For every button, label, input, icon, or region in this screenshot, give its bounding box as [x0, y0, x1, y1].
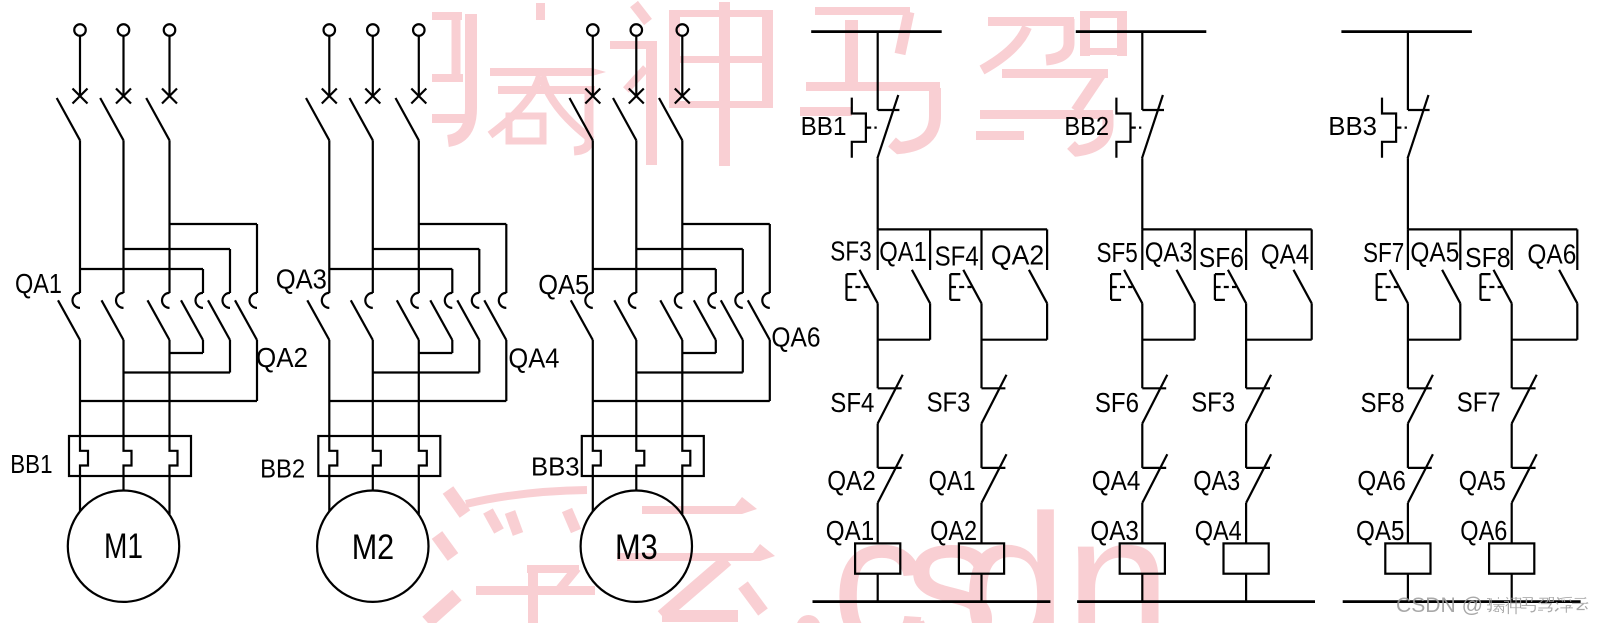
wire L3 breaker to contactor, branch 1 — [168, 140, 170, 293]
circuit breaker blade L3 branch 1 — [146, 98, 169, 140]
contactor coil QA2, branch 1 — [959, 543, 1004, 573]
NC button contact SF4, branch 1 — [878, 387, 902, 389]
seal-in wire QA5 contact bottom, branch 3 — [1408, 303, 1460, 339]
wire QA4 pole3 bottom to L1, branch 2 — [329, 340, 506, 401]
svg-text:QA6: QA6 — [771, 321, 820, 352]
NC interlock contact QA2, branch 1 — [878, 467, 902, 469]
svg-text:BB3: BB3 — [531, 452, 580, 482]
supply terminal L1 branch 3 — [587, 24, 599, 36]
circuit breaker blade L2 branch 1 — [100, 98, 123, 140]
wire QA5 to coil QA6, branch 3 — [1511, 503, 1513, 544]
wire coil QA2 to bus N, branch 1 — [980, 574, 982, 602]
wire stub to QA5 contact top, branch 3 — [1459, 229, 1461, 270]
node bus for parallel start branches, branch 1 — [878, 228, 1047, 230]
supply terminal L1 branch 2 — [324, 24, 336, 36]
wire QA4 pole1 bottom to L3, branch 2 — [419, 340, 453, 353]
svg-text:QA4: QA4 — [508, 343, 559, 374]
wire overload to motor M3 lead 3 — [681, 476, 683, 514]
svg-text:BB2: BB2 — [260, 454, 305, 484]
wire L3 terminal to breaker, branch 3 — [681, 36, 683, 96]
wire L2 to QA2 pole2 top, branch 1 — [124, 249, 231, 293]
NC interlock contact QA1, branch 1 — [982, 467, 1006, 469]
circuit breaker blade L1 branch 1 — [57, 98, 80, 140]
wire BB1 to branch node, branch 1 — [877, 158, 879, 229]
wire L1 to QA6 pole1 top, branch 3 — [593, 269, 716, 293]
contactor QA5 main contact pole 2, branch 3 — [629, 293, 636, 308]
circuit breaker contact cross L3 branch 3 — [675, 89, 690, 104]
watermark (decorative) — [427, 2, 1171, 623]
wire coil QA3 to bus N, branch 2 — [1141, 574, 1143, 602]
NO contact QA6, branch 3 — [1559, 270, 1577, 304]
wire L1 terminal to breaker, branch 2 — [328, 36, 330, 96]
contactor QA1 main contact pole 2, branch 1 — [116, 293, 124, 308]
wire stub to QA1 contact top, branch 1 — [929, 229, 931, 270]
BB1 trip mechanism symbol — [852, 98, 866, 158]
wire SF8 to QA6, branch 3 — [1407, 424, 1409, 468]
circuit breaker blade L1 branch 2 — [306, 98, 329, 140]
NC button contact SF6, branch 2 — [1142, 387, 1166, 389]
svg-text:SF6: SF6 — [1095, 387, 1139, 418]
svg-text:QA4: QA4 — [1092, 465, 1141, 496]
contactor QA6 main contact pole 1, branch 3 — [708, 293, 715, 308]
contactor QA4 main contact pole 3, branch 2 — [499, 293, 506, 308]
BB3 trip mechanism symbol — [1382, 98, 1396, 158]
overload heater element BB1 pole 1 — [80, 436, 88, 476]
control supply bus L, branch 1 — [811, 30, 942, 33]
wire SF6 to interlock chain, branch 2 — [1245, 303, 1247, 388]
wire stub to SF6 contact top, branch 2 — [1245, 229, 1247, 270]
contactor coil QA3, branch 2 — [1120, 543, 1165, 573]
supply terminal L1 branch 1 — [74, 24, 86, 36]
circuit breaker contact cross L2 branch 1 — [116, 89, 131, 104]
wire overload to motor M1 lead 2 — [122, 476, 124, 491]
overload heater element BB3 pole 2 — [636, 436, 644, 476]
supply terminal L2 branch 1 — [118, 24, 130, 36]
svg-text:QA4: QA4 — [1195, 515, 1242, 546]
contactor coil QA1, branch 1 — [855, 543, 900, 573]
wire L3 terminal to breaker, branch 1 — [168, 36, 170, 96]
wire QA2 pole3 bottom to L1, branch 1 — [80, 340, 257, 401]
wire L3 terminal to breaker, branch 2 — [418, 36, 420, 96]
NC button contact SF3, branch 2 — [1246, 387, 1270, 389]
wire QA3 to coil QA4, branch 2 — [1245, 503, 1247, 544]
wire overload to motor M2 lead 3 — [418, 476, 420, 514]
contactor QA4 main contact pole 2, branch 2 — [472, 293, 479, 308]
NC interlock contact QA5, branch 3 — [1512, 467, 1536, 469]
control return bus N, branch 2 — [1077, 600, 1315, 603]
seal-in wire QA4 contact bottom, branch 2 — [1246, 303, 1312, 339]
NC button contact SF8, branch 3 — [1408, 387, 1432, 389]
wire coil QA6 to bus N, branch 3 — [1511, 574, 1513, 602]
svg-text:QA4: QA4 — [1261, 239, 1309, 270]
node bus for parallel start branches, branch 2 — [1142, 228, 1311, 230]
pushbutton actuator of SF4, branch 1 — [950, 274, 960, 300]
NC interlock contact QA4, branch 2 — [1142, 467, 1166, 469]
wire L3 breaker to contactor, branch 2 — [418, 140, 420, 293]
overload heater element BB2 pole 3 — [419, 436, 427, 476]
wire QA4 pole2 bottom to L2, branch 2 — [373, 340, 480, 373]
motor M1 — [68, 491, 179, 602]
svg-text:QA5: QA5 — [1356, 515, 1404, 546]
circuit breaker contact cross L1 branch 3 — [585, 89, 600, 104]
svg-text:SF4: SF4 — [830, 387, 874, 418]
NC interlock contact QA6, branch 3 — [1408, 467, 1432, 469]
contactor QA3 main contact pole 1, branch 2 — [322, 293, 330, 308]
thermal overload relay BB1 body — [69, 436, 191, 476]
BB1 actuator dashed link — [867, 126, 877, 128]
wire stub to QA2 contact top, branch 1 — [1046, 229, 1048, 270]
circuit breaker contact cross L2 branch 2 — [365, 89, 380, 104]
contactor QA5 main contact pole 1, branch 3 — [585, 293, 593, 308]
wire QA1 to coil QA2, branch 1 — [980, 503, 982, 544]
wire QA6 to coil QA5, branch 3 — [1407, 503, 1409, 544]
control supply bus L, branch 2 — [1076, 30, 1207, 33]
svg-text:SF3: SF3 — [830, 236, 871, 267]
supply terminal L3 branch 2 — [413, 24, 425, 36]
contactor QA3 main contact pole 2, branch 2 — [365, 293, 372, 308]
wire L2 to QA4 pole2 top, branch 2 — [373, 249, 480, 293]
wire BB2 to branch node, branch 2 — [1141, 158, 1143, 229]
seal-in wire QA2 contact bottom, branch 1 — [982, 303, 1048, 339]
svg-text:QA2: QA2 — [930, 515, 977, 546]
svg-text:QA3: QA3 — [276, 263, 327, 294]
circuit breaker contact cross L1 branch 1 — [73, 89, 88, 104]
svg-text:SF3: SF3 — [927, 387, 971, 418]
control return bus N, branch 3 — [1343, 600, 1581, 603]
NC button contact SF7, branch 3 — [1512, 387, 1536, 389]
svg-text:QA1: QA1 — [879, 236, 927, 267]
wire QA2 pole2 bottom to L2, branch 1 — [124, 340, 231, 373]
wire L2 breaker to contactor, branch 1 — [122, 140, 124, 293]
pushbutton actuator of SF7, branch 3 — [1377, 274, 1387, 300]
wire stub to SF4 contact top, branch 1 — [980, 229, 982, 270]
wire to SF7 contact top, branch 3 — [1407, 229, 1409, 270]
contactor QA6 main contact pole 2, branch 3 — [735, 293, 743, 308]
wire contactor to overload relay, branch 3 — [681, 340, 683, 436]
svg-text:SF7: SF7 — [1457, 387, 1501, 418]
supply terminal L2 branch 3 — [631, 24, 643, 36]
contactor QA2 main contact pole 1, branch 1 — [196, 293, 204, 308]
svg-text:QA2: QA2 — [991, 240, 1044, 271]
svg-text:SF5: SF5 — [1097, 237, 1138, 268]
NC interlock contact QA3, branch 2 — [1246, 467, 1270, 469]
wire overload to motor M3 lead 1 — [592, 476, 594, 512]
contactor QA5 main contact pole 3, branch 3 — [675, 293, 683, 308]
circuit breaker contact cross L2 branch 3 — [629, 89, 644, 104]
wire bus to BB2 contact — [1141, 32, 1143, 110]
NO contact SF3, branch 1 — [860, 270, 878, 304]
supply terminal L3 branch 1 — [164, 24, 176, 36]
wire SF7 to interlock chain, branch 3 — [1407, 303, 1409, 388]
CSDN caption (decorative) — [1396, 594, 1589, 617]
svg-text:QA1: QA1 — [826, 515, 874, 546]
svg-text:QA5: QA5 — [1410, 236, 1459, 267]
wire L3 breaker to contactor, branch 3 — [681, 140, 683, 293]
NO contact SF7, branch 3 — [1390, 270, 1408, 304]
wire L2 terminal to breaker, branch 2 — [372, 36, 374, 96]
svg-text:QA6: QA6 — [1460, 515, 1507, 546]
contactor QA6 main contact pole 3, branch 3 — [762, 293, 769, 308]
pushbutton actuator of SF8, branch 3 — [1481, 274, 1491, 300]
circuit breaker blade L3 branch 2 — [396, 98, 419, 140]
BB2 actuator dashed link — [1131, 126, 1141, 128]
motor M3 — [581, 491, 692, 602]
circuit breaker blade L2 branch 2 — [350, 98, 373, 140]
NO contact SF4, branch 1 — [963, 270, 981, 304]
svg-text:QA1: QA1 — [929, 465, 976, 496]
wire SF4 to QA2, branch 1 — [877, 424, 879, 468]
wire bus to BB1 contact — [877, 32, 879, 110]
pushbutton actuator of SF5, branch 2 — [1111, 274, 1121, 300]
overload relay BB2 NC contact — [1142, 109, 1164, 111]
wire to SF3 contact top, branch 1 — [877, 229, 879, 270]
supply terminal L3 branch 3 — [677, 24, 689, 36]
contactor coil QA6, branch 3 — [1489, 543, 1534, 573]
overload heater element BB3 pole 1 — [593, 436, 601, 476]
wire L3 to QA4 pole3 top, branch 2 — [419, 224, 507, 293]
wire L1 breaker to contactor, branch 3 — [592, 140, 594, 293]
wire L2 breaker to contactor, branch 3 — [635, 140, 637, 293]
contactor coil QA4, branch 2 — [1224, 543, 1269, 573]
wire contactor to overload relay, branch 3 — [635, 340, 637, 436]
wire contactor to overload relay, branch 1 — [122, 340, 124, 436]
svg-text:BB1: BB1 — [10, 449, 52, 479]
svg-text:BB3: BB3 — [1328, 111, 1377, 141]
control supply bus L, branch 3 — [1341, 30, 1472, 33]
wire stub to QA3 contact top, branch 2 — [1194, 229, 1196, 270]
wire L2 terminal to breaker, branch 3 — [635, 36, 637, 96]
svg-text:SF8: SF8 — [1361, 387, 1405, 418]
circuit breaker blade L1 branch 3 — [570, 98, 593, 140]
svg-text:SF3: SF3 — [1191, 387, 1235, 418]
wire QA2 to coil QA1, branch 1 — [877, 503, 879, 544]
wire overload to motor M2 lead 2 — [372, 476, 374, 491]
circuit breaker contact cross L3 branch 2 — [411, 89, 426, 104]
svg-text:QA6: QA6 — [1357, 465, 1406, 496]
wire contactor to overload relay, branch 1 — [168, 340, 170, 436]
wire L3 to QA6 pole3 top, branch 3 — [682, 224, 770, 293]
contactor QA4 main contact pole 1, branch 2 — [445, 293, 452, 308]
NO contact QA5, branch 3 — [1442, 270, 1460, 304]
wire overload to motor M2 lead 1 — [328, 476, 330, 512]
wire SF7 to QA5, branch 3 — [1511, 424, 1513, 468]
node bus for parallel start branches, branch 3 — [1408, 228, 1577, 230]
wire QA6 pole3 bottom to L1, branch 3 — [593, 340, 770, 401]
overload heater element BB1 pole 2 — [124, 436, 132, 476]
svg-text:QA2: QA2 — [256, 342, 308, 373]
contactor coil QA5, branch 3 — [1385, 543, 1430, 573]
overload relay BB3 NC contact — [1408, 109, 1430, 111]
BB3 actuator dashed link — [1397, 126, 1407, 128]
wire QA6 pole2 bottom to L2, branch 3 — [636, 340, 743, 373]
wire contactor to overload relay, branch 3 — [592, 340, 594, 436]
svg-text:QA5: QA5 — [1459, 465, 1506, 496]
svg-text:SF7: SF7 — [1363, 237, 1404, 268]
svg-text:SF8: SF8 — [1465, 242, 1511, 273]
circuit breaker blade L2 branch 3 — [613, 98, 636, 140]
BB2 trip mechanism symbol — [1116, 98, 1130, 158]
overload relay BB1 NC contact — [878, 109, 900, 111]
wire overload to motor M3 lead 2 — [635, 476, 637, 491]
seal-in wire QA6 contact bottom, branch 3 — [1512, 303, 1578, 339]
NO contact QA1, branch 1 — [912, 270, 930, 304]
wire stub to QA4 contact top, branch 2 — [1311, 229, 1313, 270]
circuit breaker blade L3 branch 3 — [659, 98, 682, 140]
wire L2 breaker to contactor, branch 2 — [372, 140, 374, 293]
wire stub to SF8 contact top, branch 3 — [1511, 229, 1513, 270]
wire contactor to overload relay, branch 2 — [372, 340, 374, 436]
wire L1 to QA2 pole1 top, branch 1 — [80, 269, 203, 293]
NC button contact SF3, branch 1 — [982, 387, 1006, 389]
wire L1 terminal to breaker, branch 3 — [592, 36, 594, 96]
control return bus N, branch 1 — [813, 600, 1051, 603]
contactor QA2 main contact pole 2, branch 1 — [223, 293, 230, 308]
wire stub to QA6 contact top, branch 3 — [1576, 229, 1578, 270]
wire SF5 to interlock chain, branch 2 — [1141, 303, 1143, 388]
wire SF3 to QA3, branch 2 — [1245, 424, 1247, 468]
svg-text:QA3: QA3 — [1090, 515, 1138, 546]
contactor QA1 main contact pole 1, branch 1 — [73, 293, 81, 308]
contactor QA2 main contact pole 3, branch 1 — [250, 293, 257, 308]
svg-text:M3: M3 — [615, 528, 658, 567]
wire QA2 pole1 bottom to L3, branch 1 — [170, 340, 204, 353]
svg-text:QA3: QA3 — [1193, 465, 1240, 496]
wire overload to motor M1 lead 1 — [79, 476, 81, 512]
contactor QA3 main contact pole 3, branch 2 — [411, 293, 419, 308]
svg-text:BB1: BB1 — [801, 111, 847, 141]
NO contact SF6, branch 2 — [1228, 270, 1246, 304]
svg-text:QA1: QA1 — [15, 268, 62, 299]
wire to SF5 contact top, branch 2 — [1141, 229, 1143, 270]
svg-text:BB2: BB2 — [1064, 111, 1109, 141]
NO contact QA2, branch 1 — [1029, 270, 1047, 304]
wire L1 terminal to breaker, branch 1 — [79, 36, 81, 96]
contactor QA1 main contact pole 3, branch 1 — [162, 293, 170, 308]
wire contactor to overload relay, branch 2 — [328, 340, 330, 436]
wire L1 to QA4 pole1 top, branch 2 — [329, 269, 452, 293]
NO contact SF8, branch 3 — [1494, 270, 1512, 304]
overload heater element BB3 pole 3 — [682, 436, 690, 476]
NO contact QA3, branch 2 — [1177, 270, 1195, 304]
wire contactor to overload relay, branch 2 — [418, 340, 420, 436]
wire overload to motor M1 lead 3 — [168, 476, 170, 514]
pushbutton actuator of SF6, branch 2 — [1215, 274, 1225, 300]
wire bus to BB3 contact — [1407, 32, 1409, 110]
wire coil QA5 to bus N, branch 3 — [1407, 574, 1409, 602]
svg-text:CSDN @: CSDN @ — [1396, 594, 1483, 617]
thermal overload relay BB3 body — [582, 436, 704, 476]
circuit breaker contact cross L1 branch 2 — [322, 89, 337, 104]
svg-text:QA5: QA5 — [538, 269, 589, 300]
svg-text:SF6: SF6 — [1199, 242, 1244, 273]
wire coil QA4 to bus N, branch 2 — [1245, 574, 1247, 602]
circuit breaker contact cross L3 branch 1 — [162, 89, 177, 104]
wire L1 breaker to contactor, branch 2 — [328, 140, 330, 293]
svg-text:M1: M1 — [104, 527, 143, 566]
wire BB3 to branch node, branch 3 — [1407, 158, 1409, 229]
svg-text:QA3: QA3 — [1145, 236, 1193, 267]
wire L3 to QA2 pole3 top, branch 1 — [170, 224, 258, 293]
motor M2 — [317, 491, 428, 602]
wire SF6 to QA4, branch 2 — [1141, 424, 1143, 468]
wire SF3 to interlock chain, branch 1 — [877, 303, 879, 388]
wire L1 breaker to contactor, branch 1 — [79, 140, 81, 293]
wire L2 to QA6 pole2 top, branch 3 — [636, 249, 743, 293]
wire SF8 to interlock chain, branch 3 — [1511, 303, 1513, 388]
supply terminal L2 branch 2 — [367, 24, 379, 36]
NO contact SF5, branch 2 — [1124, 270, 1142, 304]
seal-in wire QA3 contact bottom, branch 2 — [1142, 303, 1194, 339]
svg-text:SF4: SF4 — [935, 240, 979, 271]
pushbutton actuator of SF3, branch 1 — [847, 274, 857, 300]
NO contact QA4, branch 2 — [1294, 270, 1312, 304]
wire L2 terminal to breaker, branch 1 — [122, 36, 124, 96]
wire SF4 to interlock chain, branch 1 — [980, 303, 982, 388]
seal-in wire QA1 contact bottom, branch 1 — [878, 303, 930, 339]
wire SF3 to QA1, branch 1 — [980, 424, 982, 468]
overload heater element BB2 pole 1 — [329, 436, 337, 476]
wire contactor to overload relay, branch 1 — [79, 340, 81, 436]
overload heater element BB2 pole 2 — [373, 436, 381, 476]
svg-text:M2: M2 — [352, 528, 395, 567]
svg-text:QA2: QA2 — [827, 465, 876, 496]
wire QA6 pole1 bottom to L3, branch 3 — [682, 340, 716, 353]
svg-text:QA6: QA6 — [1527, 239, 1576, 270]
overload heater element BB1 pole 3 — [170, 436, 178, 476]
wire coil QA1 to bus N, branch 1 — [877, 574, 879, 602]
thermal overload relay BB2 body — [318, 436, 440, 476]
wire QA4 to coil QA3, branch 2 — [1141, 503, 1143, 544]
